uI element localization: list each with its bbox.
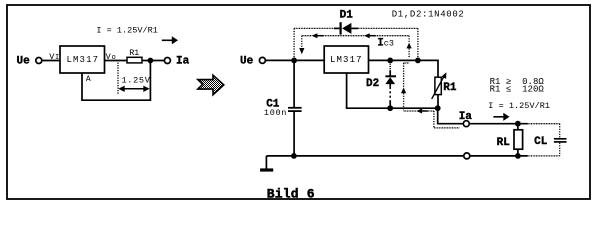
node: R1 top junction: [415, 58, 421, 64]
svg-text:1.25V: 1.25V: [122, 76, 151, 86]
node: R1 bottom junction: [435, 105, 441, 111]
ground wire: [266, 155, 463, 157]
svg-text:I = 1.25V/R1: I = 1.25V/R1: [96, 25, 157, 35]
svg-text:D1: D1: [340, 9, 354, 21]
current loop dotted: top line through D1: [294, 27, 418, 29]
wire Ue to LM317: [42, 60, 60, 62]
current loop dotted: inner horizontal with arrows: [302, 33, 409, 38]
current direction arrow Ia (right): [493, 113, 509, 121]
resistor R1 (right, variable): [435, 77, 441, 94]
regulator U2 LM317 (right): [324, 46, 368, 73]
terminal output minus: [464, 153, 470, 159]
svg-text:Ia: Ia: [459, 111, 473, 123]
wire R1 bottom: [437, 95, 439, 109]
wire A pin feedback (left): [82, 61, 150, 101]
wire ADJ to R1 bottom: [347, 73, 438, 108]
big block arrow between circuits: [198, 75, 224, 95]
svg-text:100n: 100n: [264, 108, 287, 118]
svg-text:R1: R1: [443, 82, 457, 94]
current loop dotted: corner to output: [434, 111, 459, 128]
svg-text:Bild 6: Bild 6: [267, 187, 315, 202]
svg-text:Ia: Ia: [176, 56, 190, 68]
svg-text:LM317: LM317: [67, 55, 99, 65]
svg-text:CL: CL: [534, 136, 548, 148]
current loop dotted: right vertical: [417, 28, 419, 57]
current loop dotted: inner left vertical with down arrow: [299, 36, 304, 55]
svg-text:R1: R1: [129, 48, 139, 58]
wire Vo to R1: [105, 60, 128, 62]
svg-text:RL: RL: [497, 137, 511, 149]
ground: [260, 156, 273, 170]
terminal Ue (right): [259, 57, 265, 63]
current loop dotted: inner right vertical with up arrows: [401, 36, 412, 111]
node: input junction: [291, 58, 297, 64]
svg-text:LM317: LM317: [330, 55, 362, 65]
measurement double arrow 1.25V: [118, 86, 149, 92]
node: D2 top junction: [387, 58, 393, 64]
node reference dotted line (left): [117, 63, 119, 95]
svg-text:Ue: Ue: [17, 55, 31, 67]
wire R1 bottom to output terminal: [438, 108, 464, 124]
svg-text:c3: c3: [384, 39, 394, 49]
svg-text:A: A: [86, 75, 91, 84]
resistor R1 (left): [127, 57, 142, 63]
wire down to R1 (right): [437, 60, 439, 78]
svg-text:Ue: Ue: [240, 55, 254, 67]
diode D1: [334, 22, 358, 34]
regulator U1 LM317 (left): [60, 46, 105, 73]
wire output minus to RL: [470, 155, 528, 157]
pin label Vo: [106, 52, 116, 62]
current direction arrow (left circuit): [162, 36, 178, 44]
node: RL bottom junction: [515, 153, 521, 159]
dotted connection to CL bottom: [528, 155, 560, 157]
terminal Ue (left): [36, 58, 42, 64]
svg-text:D1,D2:1N4002: D1,D2:1N4002: [392, 9, 464, 19]
current loop dotted: bottom horizontal with left arrow: [404, 109, 434, 114]
node: D2 bottom junction: [387, 105, 393, 111]
node: output junction (left): [148, 58, 154, 64]
terminal output plus: [463, 121, 469, 127]
node: RL top junction: [515, 121, 521, 127]
capacitor C1: [288, 60, 302, 155]
terminal Ia (left): [164, 58, 170, 64]
potentiometer arrow through R1: [432, 72, 447, 99]
label Ic3: [377, 37, 394, 49]
svg-text:D2: D2: [366, 78, 379, 90]
dotted connection to CL top: [528, 123, 560, 125]
wire output to RL: [469, 123, 527, 125]
wire R1 to Ia: [142, 60, 164, 62]
pin label Vi: [49, 52, 59, 62]
svg-text:I: I: [55, 54, 59, 62]
capacitor CL: [554, 124, 567, 156]
current loop dotted: left vertical: [293, 28, 295, 57]
resistor RL: [514, 124, 523, 156]
frame border: [7, 5, 590, 199]
svg-text:R1 ≤ 120Ω: R1 ≤ 120Ω: [490, 84, 545, 94]
wire LM317 output (right): [368, 59, 438, 61]
diode D2: [385, 62, 396, 109]
svg-text:I = 1.25V/R1: I = 1.25V/R1: [488, 101, 550, 111]
wire Ue to LM317 (right): [266, 59, 324, 61]
node: C1 ground junction: [291, 153, 297, 159]
